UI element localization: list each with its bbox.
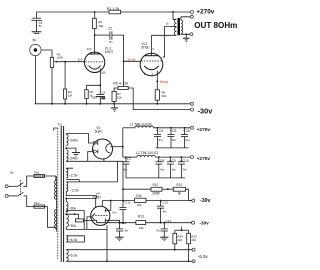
wire F1 to primary top [45,176,57,180]
node C11 top [110,200,112,202]
resistor R12 [173,183,185,195]
terminal OUT top [190,15,193,18]
svg-text:6Х2П: 6Х2П [93,196,102,200]
svg-text:Tr1: Tr1 [57,122,62,126]
svg-text:OUT 8OHm: OUT 8OHm [194,21,237,30]
wire rail to terminal [121,11,191,13]
svg-text:C14: C14 [166,219,172,223]
wire switch to fuse F2 [23,196,34,207]
node row A [167,188,169,190]
node V2 grid [123,60,125,62]
svg-text:Пр1: Пр1 [34,170,40,174]
Tr1 30v winding 2 [66,214,68,227]
terminal OUT bottom [190,33,193,36]
capacitor C2 [108,26,113,43]
output transformer primary [173,12,176,35]
resistor center tap network [75,219,83,222]
wire jack to pot R3 [41,50,52,57]
wire V4 left pin [87,217,92,230]
svg-text:9m: 9m [160,168,165,172]
Tr1 6.3v winding 2 [66,250,68,262]
node C3 ground [99,103,101,105]
wire 2.5v winding 2 lead [66,191,96,198]
wire bias row C [97,222,136,224]
node C4 [157,127,159,129]
svg-text:~30v: ~30v [68,207,76,211]
node bias bus rowA [122,188,124,190]
node C6 [184,127,186,129]
svg-text:+270v: +270v [197,156,211,162]
node heater row2 [106,260,108,262]
node R14 bottom [174,249,176,251]
node C11 bottom [122,222,124,224]
pentode V2 6П6С [140,35,163,90]
resistor R15 [187,230,197,261]
svg-text:C9: C9 [172,159,176,163]
node secondary ground [185,33,187,35]
transformer core [178,18,181,35]
ground C14 [160,237,168,241]
svg-text:C6: C6 [186,129,190,133]
svg-text:Вх: Вх [33,38,37,42]
svg-text:6П6С: 6П6С [142,46,151,50]
svg-text:-30v: -30v [200,198,210,204]
ground C13 [115,237,123,241]
wire raw DC bus [122,128,124,157]
wire V4 heater riser [106,225,108,261]
resistor R13 [136,215,146,230]
svg-text:5n: 5n [109,40,113,44]
rectifier V3 5Ц4С [93,126,113,162]
terminal -30v bias [191,108,194,111]
ground HV center tap [72,153,80,157]
svg-text:9m: 9m [156,228,161,232]
wire 30v winding 2 bottom [66,227,107,229]
node raw DC [122,146,124,148]
terminal -30v first [192,199,195,202]
Tr1 2.5v winding 1 [66,169,68,178]
node V1 cathode [99,84,101,86]
terminal 6.3v row 1 [192,248,195,251]
node C10 [181,156,183,158]
svg-text:~2.5v: ~2.5v [69,173,78,177]
svg-text:3k: 3k [178,192,182,196]
svg-text:-30v: -30v [200,220,210,225]
wire pot wiper to V1 grid [57,61,85,63]
svg-text:~6.3v: ~6.3v [68,238,77,242]
capacitor C8 [155,157,165,178]
wire jack ground [34,56,36,104]
wire C7-C10 bottom bus [126,177,186,179]
wire HV top to V3 anode 1 [66,134,93,143]
svg-text:390R: 390R [152,192,160,196]
svg-text:R12: R12 [176,183,182,187]
node C8 [158,156,160,158]
fuse F1 [34,170,45,177]
node R4 ground [64,103,66,105]
svg-text:10k: 10k [117,95,122,99]
svg-text:R13: R13 [138,215,144,219]
svg-text:C13: C13 [121,221,127,225]
capacitor C13 [116,223,129,237]
svg-text:+270v: +270v [197,127,211,133]
svg-text:10k: 10k [139,226,144,230]
wire cathode to R6 [87,85,101,89]
capacitor C12 [157,200,168,222]
capacitor C1 [31,12,43,34]
node R7 ground [113,103,115,105]
svg-text:C5: C5 [172,129,176,133]
ground symbol on rail [111,104,118,112]
svg-text:50m: 50m [91,96,97,100]
svg-text:~240v: ~240v [68,138,78,142]
svg-text:-6.3v: -6.3v [198,254,209,259]
svg-text:110: 110 [178,238,183,242]
node rail-R2 [94,11,96,13]
svg-text:C8: C8 [160,159,164,163]
svg-text:9m: 9m [183,168,188,172]
svg-text:C4: C4 [159,129,163,133]
node grid leak [64,61,66,63]
svg-text:390: 390 [161,94,166,98]
wire C2 to V2 grid [112,35,141,61]
choke L1 [123,122,191,127]
svg-text:-30v: -30v [198,106,214,115]
wire 30v center tap [66,214,78,219]
capacitor C11 [112,201,131,223]
node V1 plate [94,34,96,36]
node V2 cathode 40mA [156,81,158,83]
svg-text:R11: R11 [153,183,159,187]
svg-text:9m: 9m [123,168,128,172]
resistor R4 grid leak [64,62,73,104]
wire bias row B [102,200,134,202]
svg-text:10k: 10k [137,203,142,207]
switch Вк [5,171,23,198]
node center tap mid [74,213,76,215]
wire plate to C2 [95,34,110,36]
wire R14 R15 top bracket [175,229,189,231]
wire top rail +270v [37,11,109,13]
svg-text:C12: C12 [162,200,168,204]
svg-text:9m: 9m [158,138,163,142]
svg-text:~240v: ~240v [68,157,78,161]
svg-text:~6.3v: ~6.3v [68,254,77,258]
svg-text:9m: 9m [185,138,190,142]
node 30v winding top [65,198,67,200]
wire shield dashed [57,128,59,259]
svg-text:9m: 9m [172,138,177,142]
triode V1 6Н1П [78,35,114,85]
svg-text:5n: 5n [39,24,43,28]
svg-text:9m: 9m [172,168,177,172]
wire bracket stub [181,227,183,231]
svg-text:L2 ТВК-110-Л2: L2 ТВК-110-Л2 [136,151,158,155]
wire V3 filament to raw DC bus [110,146,122,148]
node HV center tap [65,147,67,149]
svg-text:3(8): 3(8) [101,70,106,74]
Tr1 core [61,126,63,262]
svg-text:~2.5v: ~2.5v [70,189,79,193]
wire bias row A [123,188,151,190]
node bias bus rowB [122,200,124,202]
node R15 bottom [188,260,190,262]
node rail-primary [172,11,174,13]
svg-text:2(7): 2(7) [78,57,83,61]
Tr1 primary winding [55,176,57,232]
wire V2 screen to UL tap [162,27,176,58]
resistor R10 [135,194,147,207]
wire F2 to primary bottom [45,207,57,228]
svg-text:40mA: 40mA [160,80,169,84]
wire 2.5v winding to V3 filament [66,161,117,182]
capacitor C9 [167,157,177,178]
wire 30v winding 1 bottom [66,211,84,230]
resistor R14 [173,230,183,250]
svg-text:-12,5v: -12,5v [126,58,136,62]
Tr1 6.3v winding 1 [66,236,68,242]
node R6 ground [86,103,88,105]
capacitor C4 [154,128,163,148]
wire anode 2 riser [88,152,94,162]
node C14 top [163,222,165,224]
Tr1 HV winding 1 [66,134,68,145]
wire 6.3v row 2 [66,260,192,262]
wire V2 plate to primary [152,34,177,36]
wire 6.3v winding 1 top lead [66,236,84,242]
capacitor C10 [178,157,189,178]
choke L2 [123,151,191,157]
svg-text:R10: R10 [136,194,142,198]
node C5 [170,127,172,129]
terminal +270v (after L2) [191,156,194,159]
svg-text:Пр2: Пр2 [34,201,40,205]
wire row A mid [162,188,173,190]
svg-text:6Н1П: 6Н1П [105,50,114,54]
duo-diode V4 6Х2П [91,192,120,226]
wire row C right [146,222,192,224]
svg-text:C10: C10 [183,159,189,163]
wire 30v winding 1 top to V4 [66,198,95,207]
terminal -30v second [192,221,195,224]
ground secondary [183,34,189,41]
wire bias bus vertical [122,161,124,200]
node bracket center [181,229,183,231]
Tr1 primary shield hook [54,128,58,131]
Tr1 30v winding 1 [66,202,68,212]
terminal +270v (after L1) [191,126,194,129]
wire 6.3v row 1 [66,249,192,251]
capacitor C14 [156,223,168,237]
svg-text:9m: 9m [163,209,168,213]
svg-text:C11: C11 [125,201,131,205]
node 30v center tap [65,213,67,215]
wire center tap to rowC [83,220,96,222]
svg-text:R1 1,2k: R1 1,2k [107,7,120,11]
svg-text:39k: 39k [98,24,103,28]
node R8 ground [156,103,158,105]
svg-text:5Ц4С: 5Ц4С [95,130,104,134]
svg-text:~30v: ~30v [68,224,76,228]
node C12 top [160,200,162,202]
capacitor C7 [123,157,132,178]
resistor R5 bias divider [113,82,128,90]
svg-text:+270v: +270v [196,9,214,16]
svg-text:1M: 1M [68,93,73,97]
svg-text:C2: C2 [108,26,112,30]
svg-text:9m: 9m [124,228,129,232]
Tr1 2.5v winding 2 [66,182,68,191]
node pot ground [51,103,53,105]
svg-text:C3: C3 [102,90,106,94]
wire grid tap down to R5 [123,61,125,86]
resistor R7 [112,91,122,103]
wire C4-C6 bottom bus [156,147,189,149]
node C12 bottom [160,222,162,224]
svg-text:9m: 9m [112,210,117,214]
svg-text:110: 110 [191,238,196,242]
svg-text:1(6): 1(6) [87,47,92,51]
resistor R1 [107,7,121,14]
Tr1 HV winding 2 [66,150,68,161]
wire row B right [146,200,192,202]
svg-text:100k: 100k [57,55,64,59]
wire R12 to -30v terminal [185,189,188,200]
node C13 top [119,222,121,224]
node C7 [125,156,127,158]
node C9 [170,156,172,158]
resistor R2 [93,12,104,35]
svg-text:C7: C7 [127,157,131,161]
resistor R8 cathode [155,90,167,104]
wire R5 right to -30v rail [128,88,190,110]
potentiometer R3 [50,52,63,103]
input jack Вх [30,38,41,56]
resistor R11 [151,183,162,195]
wire ground rail [35,103,191,105]
wire R5 left to R7 [114,88,118,91]
fuse F2 [34,201,45,208]
resistor R6 cathode [85,90,94,104]
wire center tap to ground [66,148,76,152]
capacitor C3 cathode bypass [91,85,105,104]
terminal ground rail [191,102,194,105]
capacitor C5 [168,128,177,148]
capacitor C6 [181,128,190,148]
svg-text:R5 ∗ 22k: R5 ∗ 22k [113,82,128,86]
terminal +270v top [191,11,194,14]
wire switch to fuse F1 [23,176,34,186]
terminal 6.3v row 2 [192,260,195,263]
wire HV bottom to V3 anode 2 and bias bus [66,160,123,162]
output transformer secondary [181,17,190,35]
